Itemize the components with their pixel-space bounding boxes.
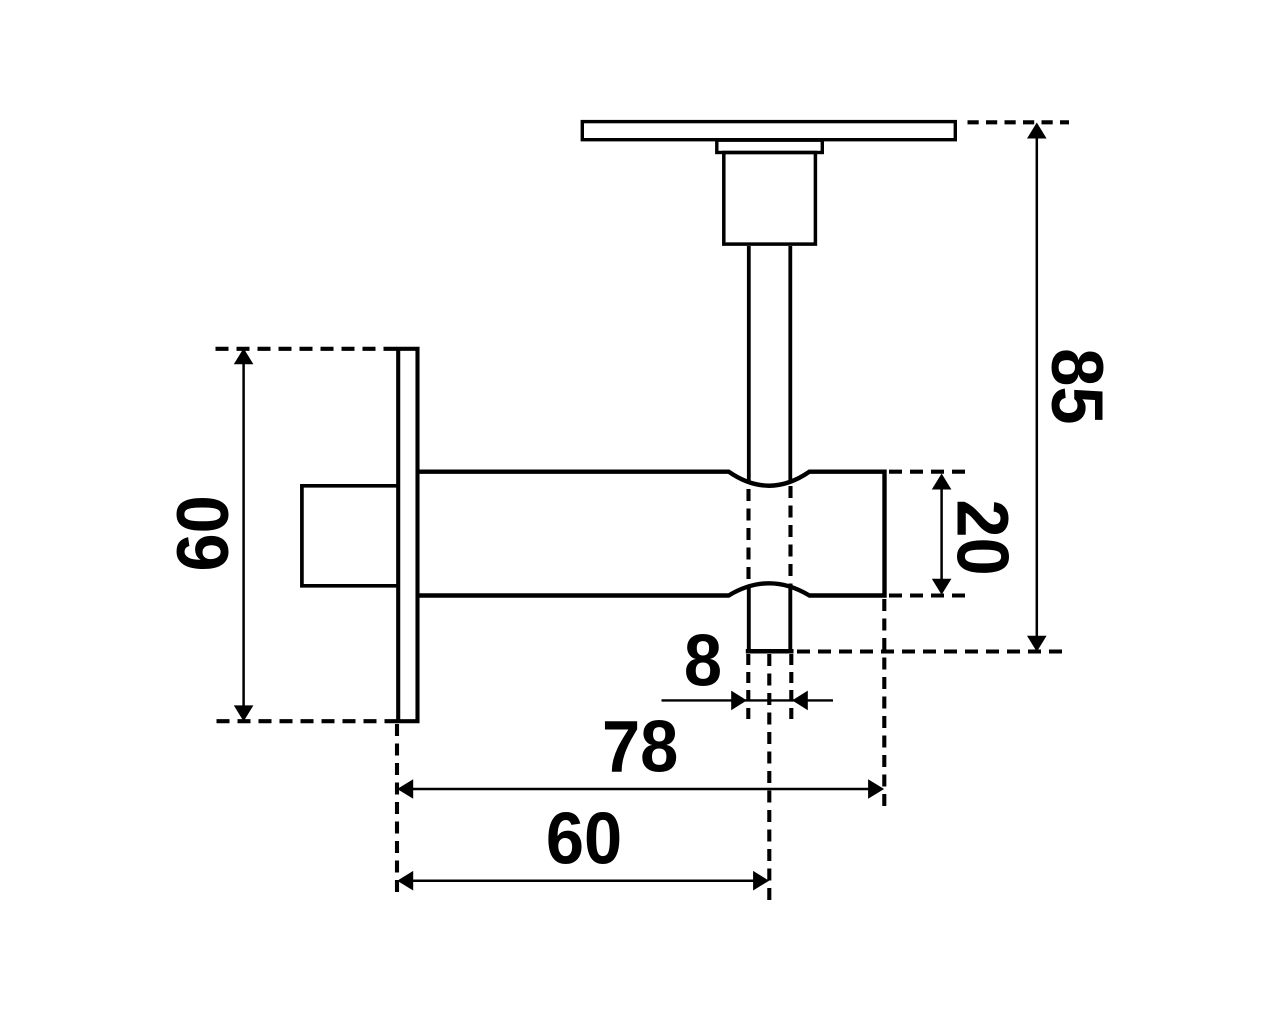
extension line vertical stem left (for 8) (746, 654, 750, 723)
extension line vertical stem right (for 8) (789, 654, 793, 723)
dimension 60 left arrow bottom (234, 705, 254, 721)
extension line bottom-left (wall plate bottom, for 60) (217, 719, 400, 723)
extension line body top right (for 20) (889, 470, 966, 474)
lower stem end cap (746, 649, 794, 654)
dimension 8 line (662, 699, 834, 701)
dimension 20 arrow top (932, 474, 952, 490)
svg-text:20: 20 (941, 499, 1022, 575)
dimension 85 arrow bottom (1027, 636, 1047, 652)
dimension 85 line (1036, 136, 1039, 638)
extension line top-right (ceiling plate, for 85) (968, 120, 1070, 124)
dimension 60 bottom arrow left (397, 871, 413, 891)
dimension 20 arrow bottom (932, 579, 952, 595)
wall plate (398, 349, 417, 721)
ceiling plate (top flange) (582, 122, 955, 140)
dimension 8 arrow pointing right (731, 691, 747, 711)
dimension 60 left arrow top (234, 348, 254, 364)
lower stem right line (788, 588, 792, 651)
extension line body bottom right (for 20) (889, 593, 966, 597)
svg-text:60: 60 (163, 495, 244, 571)
valve block (724, 153, 816, 245)
dimension 60 bottom line (400, 879, 766, 882)
block behind wall plate (302, 486, 397, 586)
extension line top-left (wall plate top, for 60) (216, 347, 400, 351)
dimension 78 line (400, 788, 881, 791)
svg-text:60: 60 (546, 798, 622, 879)
upper stem pipe left line (747, 246, 751, 484)
hidden stem line (dashed) right inside body (788, 486, 792, 588)
upper stem pipe right line (788, 246, 792, 483)
extension line vertical at stem centre (for 60 bottom) (767, 654, 771, 901)
dimension 78 arrow right (868, 779, 884, 799)
svg-text:85: 85 (1035, 348, 1116, 424)
lower stem left line (747, 587, 751, 651)
dimension 78 arrow left (397, 779, 413, 799)
extension line vertical at wall plate left (for 78/60) (395, 724, 399, 899)
svg-text:8: 8 (684, 620, 722, 701)
extension line bottom-right (stem end, for 85) (797, 649, 1068, 653)
dimension 8 arrow pointing left (792, 691, 808, 711)
svg-text:78: 78 (602, 707, 678, 788)
collar under ceiling plate (717, 140, 823, 152)
dimension 60 bottom arrow right (753, 871, 769, 891)
dimension 60 left line (242, 351, 245, 718)
extension line vertical at body right edge (for 78) (882, 599, 886, 811)
hidden stem line (dashed) left inside body (746, 489, 750, 586)
dimension 20 line (940, 477, 943, 591)
horizontal body outline with fillet dips (419, 472, 885, 596)
dimension 85 arrow top (1027, 123, 1047, 139)
